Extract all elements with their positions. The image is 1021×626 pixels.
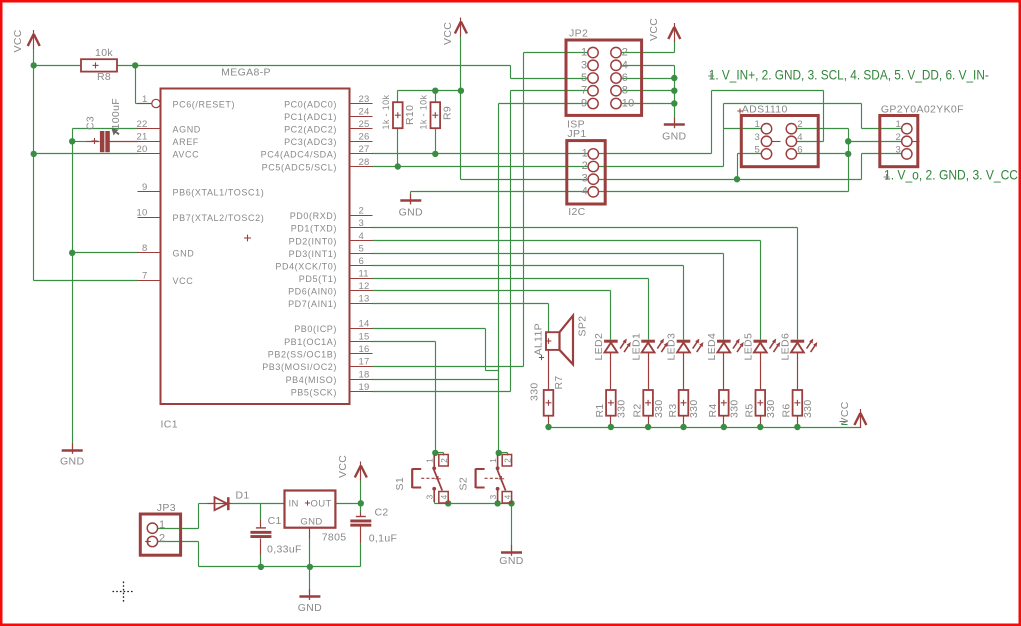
wire LED column 3 diode to resistor — [683, 353, 685, 391]
junction VCC out — [358, 500, 364, 506]
svg-text:LED4: LED4 — [706, 333, 718, 361]
svg-text:LED5: LED5 — [743, 333, 755, 361]
IC1 pin name PB7(XTAL2/TOSC2) — [173, 213, 265, 223]
IC1 pin name VCC — [173, 276, 194, 286]
wire GND: ADS pad2 to vertical — [797, 128, 849, 130]
IC1 pin name AVCC — [173, 150, 200, 160]
svg-text:PC5(ADC5/SCL): PC5(ADC5/SCL) — [262, 162, 337, 172]
svg-text:PB5(SCK): PB5(SCK) — [291, 388, 337, 398]
wire VCC2: JP1 pin3 row to V_DD dot — [461, 179, 738, 181]
ADS1110 pad 2 — [786, 119, 802, 134]
svg-text:PD1(TXD): PD1(TXD) — [291, 224, 337, 234]
IC1 pin name PC3(ADC3) — [284, 137, 337, 147]
ground GND left column — [62, 443, 83, 454]
connector JP2 body — [566, 40, 642, 115]
wire VCC branch to IC1 pin20 AVCC — [34, 153, 139, 155]
label 330 (R2) — [653, 399, 665, 418]
label LED4 — [706, 333, 718, 361]
diode LED4 — [717, 339, 744, 353]
svg-text:4: 4 — [582, 185, 588, 197]
IC1 pin name PD7(AIN1) — [288, 299, 337, 309]
supply VCC LED rail — [854, 409, 866, 428]
svg-text:PD7(AIN1): PD7(AIN1) — [288, 299, 337, 309]
label R7 — [553, 375, 565, 389]
label GND JP2 — [662, 131, 686, 143]
junction S2 pin3 — [494, 500, 500, 506]
wire LED column 4 diode to resistor — [723, 353, 725, 391]
label OUT — [305, 499, 332, 510]
junction GND/ADS pad6 — [845, 151, 851, 157]
IC1 pin 8 stub+number — [138, 243, 161, 254]
label 330 (R7) — [529, 382, 541, 401]
wire GND: to sensor pin2 — [849, 141, 903, 143]
wire VCC: arrow stem to AVCC column — [33, 49, 35, 281]
label 0,33uF — [267, 544, 302, 556]
diode LED2 — [604, 339, 631, 353]
wire supply ground drop — [309, 567, 311, 591]
wire GND: vertical down — [848, 129, 850, 192]
net label sensor pinout — [884, 167, 1019, 183]
wire SCK: JP2 pin7 down to IC1 pin19 — [372, 91, 589, 392]
IC1 pin name PD1(TXD) — [291, 224, 337, 234]
junction R9/SDA — [432, 151, 438, 157]
svg-text:R1: R1 — [594, 403, 606, 417]
svg-text:PC2(ADC2): PC2(ADC2) — [284, 125, 337, 135]
label R3 — [667, 403, 679, 417]
svg-text:AVCC: AVCC — [173, 150, 200, 160]
supply VCC JP2 — [668, 23, 680, 42]
svg-text:330: 330 — [765, 399, 777, 418]
IC1 pin name PD3(INT1) — [289, 249, 337, 259]
supply VCC 7805 — [355, 462, 367, 481]
IC1 pin name AGND — [173, 125, 201, 135]
resistor R8 10k — [81, 59, 117, 71]
IC1 pin 2 stub+number — [350, 206, 373, 217]
IC1 pin name PC5(ADC5/SCL) — [262, 162, 337, 172]
label VCC mid — [442, 22, 454, 45]
connector JP3 body — [140, 514, 180, 555]
junction R9 top — [432, 88, 438, 94]
IC1 pin name PD4(XCK/T0) — [275, 261, 337, 271]
resistor R4 330 — [719, 390, 729, 416]
resistor R7 330 — [544, 390, 554, 416]
wire to buttons ground — [511, 504, 513, 547]
label D1 — [236, 490, 250, 502]
svg-text:PB2(SS/OC1B): PB2(SS/OC1B) — [268, 350, 337, 360]
svg-text:4: 4 — [439, 494, 449, 499]
svg-text:6: 6 — [797, 144, 802, 155]
svg-text:100uF: 100uF — [110, 98, 122, 130]
wire S2 top tie — [498, 453, 508, 456]
IC1 pin 7 stub+number — [138, 271, 161, 282]
svg-text:JP3: JP3 — [157, 502, 176, 514]
JP2 pad 4 — [611, 59, 628, 71]
GP2Y pad 3 — [896, 144, 912, 159]
junction JP2 pin10 GND — [671, 100, 677, 106]
svg-text:MEGA8-P: MEGA8-P — [221, 67, 271, 79]
resistor R10 — [393, 102, 403, 128]
IC1 pin 16 stub+number — [350, 344, 373, 355]
svg-text:AL11P: AL11P — [533, 323, 545, 356]
svg-text:330: 330 — [729, 399, 741, 418]
wire GND symbol stub — [410, 192, 412, 195]
svg-text:2: 2 — [896, 132, 901, 143]
wire IC1 pin5 to column x=723.8 — [372, 254, 724, 340]
svg-text:2: 2 — [159, 533, 165, 545]
wire RESET: R8 right to junction — [118, 65, 136, 67]
wire S1 top tie — [435, 453, 444, 456]
label IN — [289, 499, 299, 510]
IC1 pin 23 stub+number — [350, 94, 373, 105]
wire VCC: to IC1 pin7 — [34, 280, 139, 282]
svg-text:16: 16 — [359, 344, 370, 355]
wire LED column 5 diode to resistor — [760, 353, 762, 391]
svg-text:S1: S1 — [394, 477, 406, 491]
svg-text:AREF: AREF — [173, 137, 199, 147]
supply VCC mid — [455, 18, 467, 37]
ground GND JP2 — [664, 118, 685, 129]
label C2 — [375, 507, 389, 519]
svg-text:R2: R2 — [631, 403, 643, 417]
svg-text:PC6(/RESET): PC6(/RESET) — [173, 99, 236, 109]
svg-text:PD2(INT0): PD2(INT0) — [289, 236, 337, 246]
IC1 pin 9 stub+number — [138, 182, 161, 193]
wire VCC2: R10/R9 tops — [398, 90, 461, 92]
svg-text:GND: GND — [60, 456, 84, 468]
GP2Y pad 2 — [896, 132, 920, 147]
IC1 pin 4 stub+number — [350, 231, 373, 242]
svg-text:GND: GND — [300, 517, 322, 528]
IC1 pin 20 stub+number — [137, 144, 161, 155]
svg-text:GND: GND — [499, 555, 523, 567]
label LED3 — [666, 333, 678, 361]
label VCC top-left — [12, 29, 24, 52]
IC1 pin name PC4(ADC4/SDA) — [261, 150, 337, 160]
label AL11P — [533, 323, 545, 356]
wire supply bottom rail — [199, 566, 361, 568]
junction rail x=723.8 — [721, 424, 727, 430]
wire IC1 pin6 to column x=683.5 — [372, 266, 684, 340]
svg-text:C1: C1 — [268, 515, 282, 527]
svg-text:3: 3 — [755, 132, 760, 143]
svg-text:JP1: JP1 — [567, 128, 586, 140]
svg-text:5: 5 — [359, 243, 364, 254]
junction pin8 GND — [69, 250, 75, 256]
capacitor C1 0,33uF — [250, 528, 271, 538]
svg-text:2: 2 — [439, 458, 449, 463]
svg-text:PD4(XCK/T0): PD4(XCK/T0) — [275, 261, 337, 271]
IC1 pin name PD0(RXD) — [290, 211, 337, 221]
label R2 — [631, 403, 643, 417]
label S1 — [394, 477, 406, 491]
label R10 — [404, 105, 416, 125]
net label ADS1110 pinout — [708, 67, 989, 83]
svg-text:3: 3 — [896, 144, 901, 155]
JP2 pad 5 — [581, 72, 598, 84]
junction JP2 pin6 GND — [671, 75, 677, 81]
JP1 pad 1 — [582, 147, 599, 159]
IC1 pin 5 stub+number — [350, 243, 373, 254]
JP1 pad 2 — [582, 160, 599, 172]
JP2 pad 6 — [611, 72, 628, 84]
IC1 pin 19 stub+number — [350, 382, 373, 393]
svg-text:PC0(ADC0): PC0(ADC0) — [284, 99, 337, 109]
wire resistor 2 to rail — [648, 416, 650, 428]
wire VCC2: over to sensor pin3 — [738, 154, 903, 180]
label LED1 — [630, 333, 642, 361]
label SP2 — [577, 316, 589, 337]
resistor R3 330 — [679, 390, 689, 416]
svg-text:27: 27 — [359, 144, 370, 155]
svg-text:14: 14 — [359, 319, 370, 330]
IC1 pin 15 stub+number — [350, 331, 373, 342]
wire IC1 pin4 to column x=760.3 — [372, 241, 761, 340]
svg-text:6: 6 — [622, 72, 628, 84]
wire resistor 6 to rail — [797, 416, 799, 428]
svg-text:23: 23 — [359, 94, 370, 105]
IC1 pin 25 stub+number — [350, 119, 373, 130]
IC1 pin name PB0(ICP) — [294, 324, 337, 334]
svg-text:R7: R7 — [553, 375, 565, 389]
IC1 pin name PB4(MISO) — [286, 375, 337, 385]
ground GND switches — [501, 545, 522, 556]
label R1 — [594, 403, 606, 417]
label LED2 — [593, 333, 605, 361]
IC1 pin name PB3(MOSI/OC2) — [262, 362, 337, 372]
svg-text:1: 1 — [142, 94, 147, 105]
junction S2 pin4 — [508, 500, 514, 506]
svg-text:8: 8 — [622, 85, 628, 97]
svg-text:7: 7 — [142, 271, 147, 282]
svg-text:3: 3 — [582, 173, 588, 185]
svg-text:IC1: IC1 — [161, 419, 178, 431]
wire V_IN+: top route to sensor pin1 — [724, 104, 903, 129]
svg-text:7805: 7805 — [322, 532, 347, 544]
wire MOSI: JP2 pin1 down to IC1 pin17 — [372, 53, 589, 367]
wire SDA: up and over — [712, 91, 824, 154]
crosshair cursor — [113, 582, 135, 603]
label JP3 — [157, 502, 176, 514]
wire C2 bottom to rail — [360, 527, 362, 567]
wire D1 to 7805 IN — [232, 503, 285, 505]
wire VCC arrow stem — [360, 479, 362, 504]
svg-text:5: 5 — [755, 144, 760, 155]
svg-text:VCC: VCC — [839, 401, 851, 424]
junction 7805 GND — [307, 564, 313, 570]
speaker SP2 AL11P — [539, 316, 573, 365]
svg-text:26: 26 — [359, 132, 370, 143]
svg-text:10: 10 — [137, 208, 148, 219]
wire resistor 4 to rail — [723, 416, 725, 428]
IC1 pin 6 stub+number — [350, 256, 373, 267]
svg-text:5: 5 — [581, 72, 587, 84]
ADS1110 pad 5 — [755, 144, 772, 159]
IC1 pin 27 stub+number — [350, 144, 373, 155]
svg-text:1k - 10k: 1k - 10k — [419, 95, 429, 130]
ground GND JP1 — [400, 194, 421, 205]
junction rail x=548.5 — [545, 424, 551, 430]
wire IC1 pin8 GND to column — [73, 252, 139, 254]
svg-text:S2: S2 — [457, 477, 469, 491]
svg-text:330: 330 — [529, 382, 541, 401]
label 7805 — [322, 532, 347, 544]
svg-text:11: 11 — [359, 268, 369, 279]
label R6 — [781, 403, 793, 417]
svg-text:22: 22 — [137, 119, 148, 130]
label S2 — [457, 477, 469, 491]
wire RESET: rail to ISP jog — [136, 65, 511, 67]
wire GND: JP2 pins 4,6,8,10 chain — [622, 66, 675, 119]
wire C2 top — [360, 504, 362, 517]
supply VCC top-left — [28, 30, 40, 49]
svg-text:SP2: SP2 — [577, 316, 589, 337]
label 330 (R4) — [729, 399, 741, 418]
svg-text:1: 1 — [488, 458, 498, 463]
junction R10/SCL — [395, 163, 401, 169]
svg-text:1: 1 — [425, 458, 435, 463]
label R4 — [707, 403, 719, 417]
svg-text:PD5(T1): PD5(T1) — [299, 274, 337, 284]
svg-text:LED6: LED6 — [780, 333, 792, 361]
wire C1 up — [260, 504, 262, 528]
wire SDA: IC1 pin27 through JP1 pin1 — [372, 153, 712, 155]
junction C3/GND column — [69, 138, 75, 144]
IC1 pin 10 stub+number — [137, 208, 161, 219]
IC1 pin name PD6(AIN0) — [288, 287, 337, 297]
svg-text:330: 330 — [802, 399, 814, 418]
label ISP — [567, 119, 585, 131]
label JP1 — [567, 128, 586, 140]
diode LED5 — [754, 339, 781, 353]
label IC1 — [161, 419, 178, 431]
IC1 pin name PB2(SS/OC1B) — [268, 350, 337, 360]
svg-text:1: 1 — [581, 47, 587, 59]
svg-text:9: 9 — [581, 98, 587, 110]
svg-text:6: 6 — [359, 256, 364, 267]
ADS1110 pad 1 — [755, 119, 772, 134]
svg-text:19: 19 — [359, 382, 370, 393]
label 330 (R6) — [802, 399, 814, 418]
wire switches bottom rail — [435, 498, 512, 504]
svg-text:D1: D1 — [236, 490, 250, 502]
diode LED1 — [641, 339, 668, 353]
wire SCL: up to ADS pad1 — [724, 104, 764, 167]
regulator U2 7805 body — [285, 491, 336, 528]
svg-text:18: 18 — [359, 369, 370, 380]
svg-text:10k: 10k — [95, 47, 113, 59]
label C1 — [268, 515, 282, 527]
svg-text:1k - 10k: 1k - 10k — [381, 95, 391, 130]
IC1 pin name PC1(ADC1) — [284, 112, 337, 122]
label VCC JP2 — [648, 18, 660, 41]
ground GND 7805 — [299, 590, 320, 601]
label GND (7805) — [300, 517, 322, 528]
svg-text:R3: R3 — [667, 403, 679, 417]
svg-text:C3: C3 — [85, 116, 97, 130]
wire R7 to rail — [548, 416, 550, 428]
wire IC1 pin11 to column x=648.1 — [372, 279, 649, 340]
IC1 pin 1 stub+number — [138, 94, 161, 108]
JP2 pad 7 — [581, 85, 598, 97]
wire IC1 pin15 to S1 — [372, 342, 436, 453]
wire VCC2: up to ADS pin5 — [738, 154, 764, 180]
resistor R9 — [431, 102, 441, 128]
svg-text:PC4(ADC4/SDA): PC4(ADC4/SDA) — [261, 150, 337, 160]
label VCC LED rail — [839, 401, 851, 424]
wire JP3 pin1 to D1 — [158, 504, 208, 529]
label R8 — [97, 71, 111, 83]
svg-text:2: 2 — [582, 160, 588, 172]
IC1 pin 18 stub+number — [350, 369, 373, 380]
svg-text:1. V_IN+, 2. GND, 3. SCL, 4. S: 1. V_IN+, 2. GND, 3. SCL, 4. SDA, 5. V_D… — [709, 67, 989, 83]
IC1 pin name PC0(ADC0) — [284, 99, 337, 109]
JP2 pad 8 — [611, 85, 628, 97]
label JP2 — [569, 28, 588, 40]
wire C1 down to rail — [260, 539, 262, 567]
svg-text:1. V_o, 2. GND, 3. V_CC: 1. V_o, 2. GND, 3. V_CC — [884, 167, 1018, 183]
label ADS1110 — [737, 104, 787, 116]
svg-text:2: 2 — [503, 458, 513, 463]
svg-text:7: 7 — [581, 85, 587, 97]
JP2 pad 2 — [611, 47, 628, 59]
resistor R6 330 — [793, 390, 803, 416]
IC1 pin 28 stub+number — [350, 157, 373, 168]
JP2 pad 10 — [611, 98, 635, 110]
svg-text:VCC: VCC — [337, 455, 349, 478]
diode LED6 — [791, 339, 818, 353]
junction S1 top — [432, 450, 438, 456]
svg-text:PC3(ADC3): PC3(ADC3) — [284, 137, 337, 147]
cursor artifact — [112, 129, 120, 136]
svg-text:10: 10 — [622, 98, 635, 110]
wire MISO: JP2 pin9 down to IC1 pin18 — [372, 104, 589, 380]
label GND left — [60, 456, 84, 468]
svg-text:GND: GND — [173, 249, 195, 259]
resistor R2 330 — [643, 390, 653, 416]
junction S2 top — [496, 450, 502, 456]
JP2 pad 1 — [581, 47, 598, 59]
wire JP3 pin2 to bottom rail — [158, 542, 199, 567]
svg-text:1: 1 — [582, 147, 588, 159]
junction rail x=648.1 — [645, 424, 651, 430]
wire IC1 pin3 to column x=797.4 — [372, 228, 798, 340]
junction S1 pin4 — [445, 500, 451, 506]
svg-text:PC1(ADC1): PC1(ADC1) — [284, 112, 337, 122]
ic origin cross — [244, 235, 251, 242]
svg-text:LED2: LED2 — [593, 333, 605, 361]
wire 7805 OUT to VCC — [336, 503, 361, 505]
svg-text:9: 9 — [142, 182, 147, 193]
diode D1 — [208, 497, 232, 510]
junction rail x=760.3 — [757, 424, 763, 430]
wire resistor 3 to rail — [683, 416, 685, 428]
svg-text:20: 20 — [137, 144, 148, 155]
IC1 pin name PD2(INT0) — [289, 236, 337, 246]
svg-text:PB7(XTAL2/TOSC2): PB7(XTAL2/TOSC2) — [173, 213, 265, 223]
svg-text:C2: C2 — [375, 507, 389, 519]
wire VCC2: arrow stem down to JP1 pin3 row — [460, 36, 462, 180]
wire RESET: jog to JP2 pin5 — [511, 78, 589, 80]
junction rail x=683.5 — [680, 424, 686, 430]
svg-text:GP2Y0A02YK0F: GP2Y0A02YK0F — [881, 104, 964, 116]
wire GND: to ADS pad6 — [797, 153, 849, 155]
wire VCC: JP2 pin2 to arrow — [622, 41, 675, 53]
label GND 7805 — [298, 602, 322, 614]
label C3 — [85, 116, 97, 130]
junction JP2 pin8 GND — [671, 88, 677, 94]
ADS1110 pad 4 — [786, 132, 802, 147]
wire IC1 pin12 to column x=610.9 — [372, 291, 611, 340]
